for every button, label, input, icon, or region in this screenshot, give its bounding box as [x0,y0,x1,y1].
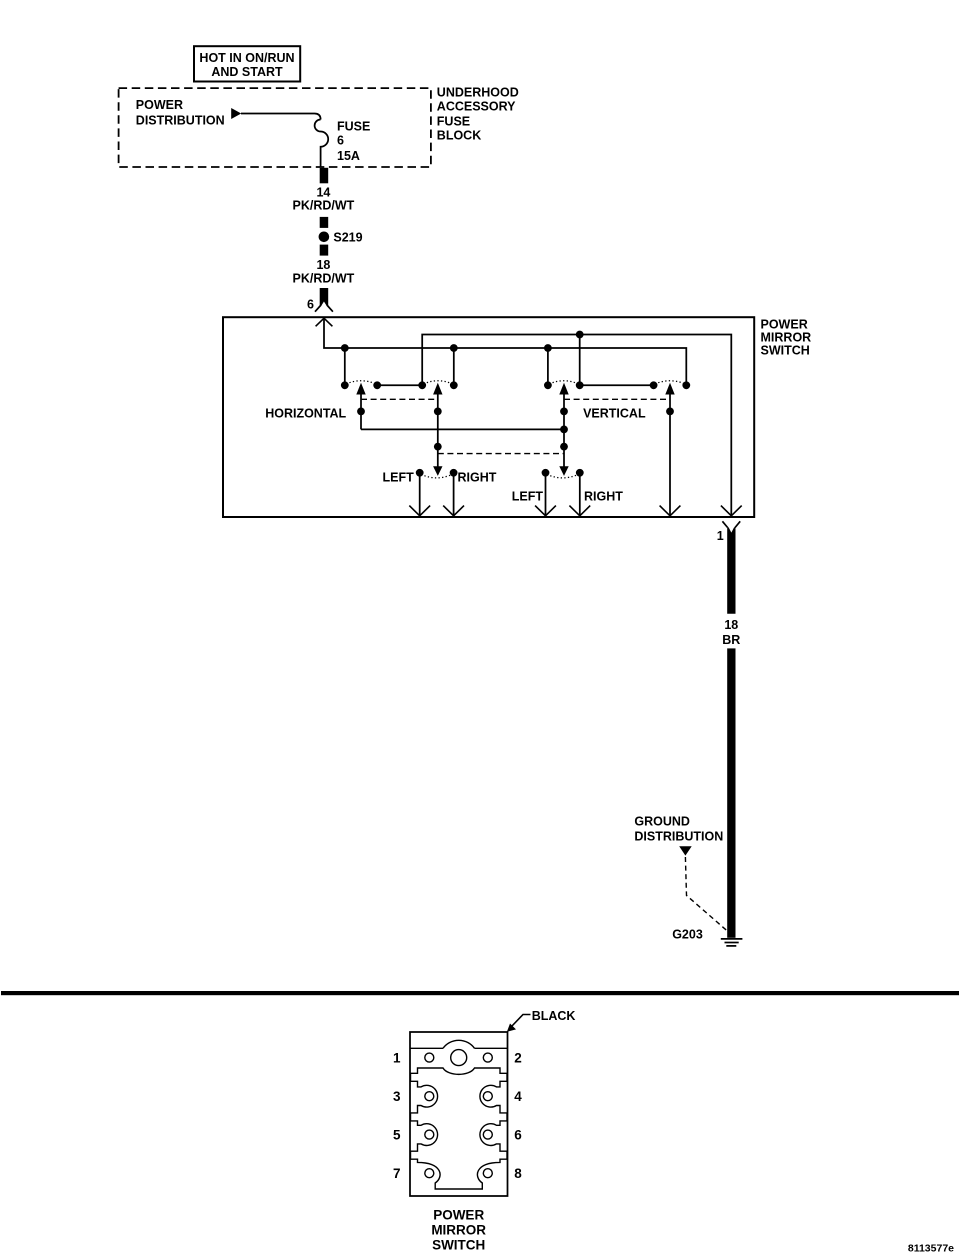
riser wire [579,335,581,386]
pin 6 entry arrow into box [316,318,333,326]
label GROUND DISTRIBUTION [634,815,723,844]
label 18 PK/RD/WT [292,258,354,285]
svg-text:6: 6 [307,297,314,311]
wire segment [320,245,329,256]
horizontal switch dotted arcs [346,381,453,384]
label POWER MIRROR SWITCH [761,317,812,357]
svg-text:2: 2 [514,1050,522,1065]
svg-text:UNDERHOOD: UNDERHOOD [437,86,519,100]
svg-text:6: 6 [337,133,344,147]
fuse 6 15A [315,120,329,168]
mechanical link vertical switch [564,398,670,400]
wire segment below fuse block [320,168,329,184]
svg-text:18: 18 [724,618,738,632]
svg-text:DISTRIBUTION: DISTRIBUTION [136,114,225,128]
dashed leader to ground point [685,857,727,931]
svg-text:FUSE: FUSE [337,119,370,133]
connector face C324 [393,1032,522,1196]
svg-text:BLOCK: BLOCK [437,129,481,143]
svg-text:BLACK: BLACK [532,1009,576,1023]
arrow from power distribution [231,108,241,119]
wire segment [320,217,329,228]
svg-text:RIGHT: RIGHT [584,490,623,504]
label POWER DISTRIBUTION [136,98,225,128]
riser wire [453,348,455,385]
left/right switch 1 contacts [416,469,458,478]
ground distribution arrow (down triangle) [679,846,692,855]
switch 2 output wires with arrows [535,473,590,516]
svg-text:AND START: AND START [211,65,283,79]
svg-text:7: 7 [393,1166,401,1181]
svg-text:POWER: POWER [136,98,183,112]
svg-text:18: 18 [316,258,330,272]
svg-text:SWITCH: SWITCH [432,1237,485,1252]
vertical wiper right (arrow up, wire to bottom) [665,383,674,516]
separator line [1,991,959,995]
center hole [451,1050,467,1066]
top line with center dome [410,1047,508,1049]
svg-text:LEFT: LEFT [383,470,415,484]
svg-text:DISTRIBUTION: DISTRIBUTION [634,830,723,844]
svg-text:S219: S219 [333,230,362,244]
junction node on bus B [576,331,584,339]
svg-text:MIRROR: MIRROR [431,1222,486,1237]
svg-text:BR: BR [722,633,740,647]
bus B output arrow at pin 1 [721,506,742,516]
wire segment to ground [727,648,735,937]
svg-text:SWITCH: SWITCH [761,344,810,358]
underhood accessory fuse block dashed box [119,88,431,167]
mechanical link between left/right selectors [438,453,564,455]
svg-text:MIRROR: MIRROR [761,331,812,345]
left/right switch 2 contacts [542,469,584,478]
connector pin 1 symbol below box [722,521,740,614]
wire wiper left to vertical section [361,428,564,430]
svg-text:HOT IN ON/RUN: HOT IN ON/RUN [199,51,294,65]
junction node on bus A [544,344,552,352]
vertical switch contacts [544,381,690,389]
header box HOT IN ON/RUN AND START [194,46,300,81]
horizontal wiper right (arrow up) [433,383,442,476]
vertical wiper right output arrow [660,506,681,516]
svg-text:POWER: POWER [761,317,808,331]
label UNDERHOOD ACCESSORY FUSE BLOCK [437,86,519,143]
svg-text:RIGHT: RIGHT [458,470,497,484]
cavity outline [411,1068,508,1189]
svg-text:LEFT: LEFT [512,490,544,504]
pin holes [425,1053,434,1062]
svg-text:FUSE: FUSE [437,115,470,129]
svg-text:PK/RD/WT: PK/RD/WT [292,271,354,285]
svg-text:PK/RD/WT: PK/RD/WT [292,199,354,213]
mechanical link horizontal switch [361,398,438,400]
svg-text:14: 14 [316,186,330,200]
svg-text:VERTICAL: VERTICAL [583,407,646,421]
switch 1 output wires with arrows [409,473,464,516]
svg-text:5: 5 [393,1127,401,1142]
label POWER MIRROR SWITCH (connector) [431,1207,486,1252]
svg-text:HORIZONTAL: HORIZONTAL [265,407,346,421]
power mirror switch box [223,317,754,517]
svg-text:POWER: POWER [433,1207,484,1222]
label 18 BR [722,618,740,647]
riser wire [547,348,549,385]
vertical wiper left (arrow up) [559,383,568,476]
svg-text:ACCESSORY: ACCESSORY [437,100,516,114]
svg-text:1: 1 [393,1050,401,1065]
svg-text:6: 6 [514,1127,522,1142]
svg-text:8113577e: 8113577e [908,1243,954,1255]
svg-text:GROUND: GROUND [634,815,690,829]
svg-text:G203: G203 [672,928,703,942]
svg-text:4: 4 [514,1089,522,1104]
svg-text:8: 8 [514,1166,522,1181]
svg-text:15A: 15A [337,149,360,163]
horizontal wiper left (arrow up) [356,383,365,430]
splice S219 [319,232,330,243]
riser wire [344,348,346,385]
wire to fuse [241,114,321,120]
vertical switch dotted arcs [549,381,685,384]
svg-text:1: 1 [717,529,724,543]
wire from pin 6 down to bus A [324,318,686,385]
connector pin 6 symbol [315,288,333,312]
bus B wire: horizontal inner contact to pin 1 drop [422,335,731,516]
label 14 PK/RD/WT [292,186,354,213]
svg-text:3: 3 [393,1089,401,1104]
label BLACK with leader arrow [507,1009,576,1032]
ground symbol G203 [721,939,743,946]
horizontal switch contacts [341,381,458,389]
junction node on bus A [450,344,458,352]
junction node on bus A [341,344,349,352]
